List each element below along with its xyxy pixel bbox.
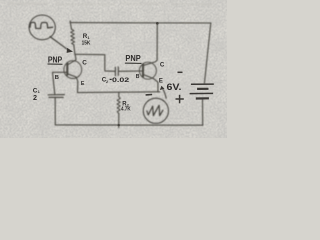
svg-text:1: 1	[38, 90, 40, 94]
svg-text:2: 2	[106, 80, 108, 84]
svg-text:0.02: 0.02	[112, 77, 130, 84]
svg-text:E: E	[81, 81, 85, 87]
svg-text:6V.: 6V.	[167, 82, 182, 92]
svg-text:PNP: PNP	[48, 55, 63, 64]
svg-text:4.7K: 4.7K	[121, 107, 131, 113]
svg-text:E: E	[159, 79, 163, 85]
svg-text:C: C	[82, 59, 87, 66]
svg-text:15K: 15K	[82, 40, 91, 46]
svg-text:PNP: PNP	[125, 54, 141, 63]
svg-text:2: 2	[33, 93, 37, 102]
svg-text:B: B	[136, 74, 140, 80]
svg-text:B: B	[55, 75, 59, 81]
svg-text:C: C	[160, 62, 165, 69]
